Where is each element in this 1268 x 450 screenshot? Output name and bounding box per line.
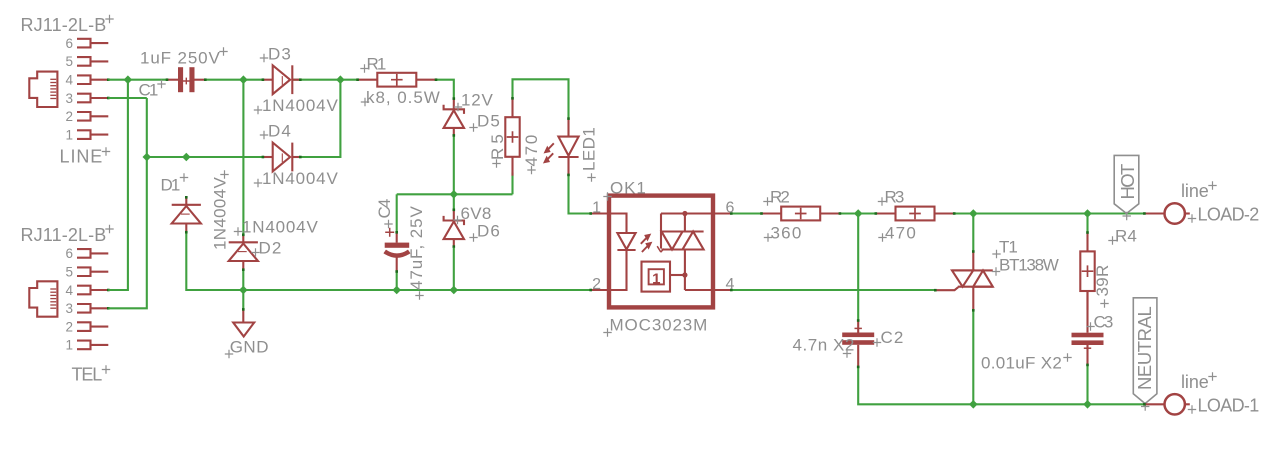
svg-text:D4: D4 [268, 122, 292, 141]
origin cross D2 value [234, 227, 242, 235]
svg-text:1N4004V: 1N4004V [262, 169, 339, 188]
svg-text:1: 1 [592, 200, 601, 217]
triac T1 [934, 250, 993, 311]
svg-text:LOAD-2: LOAD-2 [1198, 205, 1261, 225]
svg-text:R2: R2 [770, 188, 791, 207]
pin 4 of LINE connector [65, 73, 109, 88]
svg-text:LED1: LED1 [580, 126, 599, 171]
label LED1 (vertical) [580, 126, 599, 171]
label D2 [259, 239, 283, 258]
junction at 127.9,79.7 [124, 75, 133, 84]
OK1 internal triac [662, 232, 704, 250]
value 1uF 250V of C1 [140, 49, 221, 68]
wire C3 bottom [1086, 365, 1088, 404]
svg-text:470: 470 [885, 224, 917, 243]
origin cross D6 [469, 233, 477, 241]
svg-text:HOT: HOT [1117, 163, 1138, 200]
svg-text:3: 3 [65, 91, 73, 106]
origin cross R1 [360, 64, 368, 72]
LED LED1 [544, 117, 579, 176]
svg-text:R4: R4 [1115, 227, 1138, 246]
wire net column LINE pin4 / TEL pin4 [108, 80, 128, 290]
optocoupler OK1 box [609, 196, 713, 308]
OK1 pin 1 stub [589, 212, 609, 215]
diode D2 [229, 234, 258, 272]
svg-text:4.7n X2: 4.7n X2 [793, 336, 856, 355]
svg-text:12V: 12V [461, 91, 494, 110]
resistor R2 [760, 207, 841, 221]
origin cross D4 [260, 131, 268, 139]
value 6V8 of D6 [461, 204, 493, 223]
origin cross R5 [492, 159, 500, 167]
label RJ11-2L-B (TEL connector name) [21, 225, 108, 245]
origin cross R2 [763, 197, 771, 205]
origin cross OK1 [603, 192, 611, 200]
wire junction to D6 [453, 194, 455, 210]
origin cross R4 value [1100, 299, 1108, 307]
wire C1 to D3 [205, 79, 263, 81]
label R3 [885, 188, 906, 207]
label R4 [1115, 227, 1138, 246]
origin cross R2 value [764, 233, 772, 241]
svg-text:R3: R3 [885, 188, 906, 207]
wire R4 top [1086, 214, 1088, 234]
wire row A junction down to D2 top [242, 80, 244, 234]
origin cross R4 [1108, 236, 1116, 244]
origin cross HOT [1123, 212, 1131, 220]
origin cross D5 value [454, 103, 462, 111]
wire D2 bottom [242, 270, 244, 290]
svg-text:6: 6 [65, 246, 73, 261]
OK1 internal substrate box with 1 [642, 262, 671, 292]
wire R2 to R3 [840, 212, 877, 214]
wire C2 bottom to bottom output bus [858, 367, 1144, 404]
origin cross LOAD-2 [1188, 214, 1196, 222]
svg-text:1: 1 [65, 127, 73, 142]
svg-text:D2: D2 [259, 239, 283, 258]
label C4 (vertical) [375, 198, 394, 219]
svg-text:RJ11-2L-B: RJ11-2L-B [21, 225, 108, 245]
pin 4 of TEL connector [65, 283, 109, 298]
origin cross TEL [102, 365, 110, 373]
origin cross R3 [878, 197, 886, 205]
origin cross line top [1208, 181, 1216, 189]
value 470 of R3 [885, 224, 917, 243]
junction at 146.8,157.0 [143, 153, 152, 162]
svg-text:2: 2 [592, 276, 601, 293]
origin cross MOC3023M [603, 328, 611, 336]
origin cross GND [225, 350, 233, 358]
svg-text:line: line [1181, 181, 1210, 201]
wire junction down to C2 [857, 214, 859, 321]
svg-text:470: 470 [522, 134, 541, 167]
pin 2 of LINE connector [65, 109, 108, 124]
wire C4 bottom to bus [396, 272, 398, 291]
origin cross D2 [251, 248, 259, 256]
junction at 858.2,213.5 [854, 209, 863, 218]
svg-text:1N4004V: 1N4004V [242, 218, 319, 237]
pin number 2 of OK1 [592, 276, 601, 293]
label D1 [161, 176, 182, 195]
svg-text:OK1: OK1 [610, 179, 647, 198]
svg-text:D6: D6 [477, 222, 501, 241]
connector J1 RJ11-2L-B (LINE) jack symbol [29, 72, 57, 107]
label D6 [477, 222, 501, 241]
label D3 [268, 45, 292, 64]
junction at 1087.5,404.3 [1083, 400, 1092, 409]
capacitor C2 [842, 319, 874, 368]
wire junction row to R5 corner [397, 193, 513, 195]
connector LOAD-2 circle [1143, 203, 1190, 223]
origin cross LINE [102, 147, 110, 155]
pin 1 of LINE connector [65, 127, 108, 142]
svg-text:C4: C4 [375, 198, 394, 219]
svg-text:line: line [1181, 372, 1210, 392]
wire OK1 pin4 to T1 gate [731, 289, 935, 291]
capacitor C3 [1072, 333, 1104, 367]
capacitor C4 (polarized) [385, 228, 410, 273]
label C1 [139, 81, 160, 100]
svg-text:C3: C3 [1094, 313, 1115, 332]
value 360 of R2 [771, 224, 803, 243]
wire row B from pin3 column to D4 [147, 156, 263, 158]
value 39R of R4 (vertical) [1093, 264, 1112, 297]
pin number 4 of OK1 [726, 276, 735, 293]
svg-text:4: 4 [65, 283, 73, 298]
resistor R5 [505, 97, 519, 176]
origin cross C3 [1086, 322, 1094, 330]
value 0.01uF X2 of C3 [981, 354, 1063, 373]
svg-text:BT138W: BT138W [999, 256, 1060, 275]
value 4.7n X2 of C2 [793, 336, 856, 355]
svg-text:C1: C1 [139, 81, 160, 100]
origin cross C4 value [415, 291, 423, 299]
svg-text:39R: 39R [1093, 264, 1112, 297]
pin 5 of TEL connector [65, 265, 108, 280]
wire T1 MT1 down to bus [972, 310, 974, 404]
wire D4 cathode up to row A [300, 80, 340, 157]
svg-text:R1: R1 [367, 55, 388, 74]
OK1 internal light arrows [641, 234, 652, 252]
svg-text:LINE: LINE [60, 147, 104, 167]
label C2 [881, 328, 905, 347]
origin cross D1 value [220, 170, 228, 178]
pin 2 of TEL connector [65, 319, 108, 334]
svg-text:D1: D1 [161, 176, 182, 195]
diode D1 [172, 196, 201, 234]
svg-text:3: 3 [65, 301, 73, 316]
svg-text:LOAD-1: LOAD-1 [1198, 396, 1261, 416]
svg-text:4: 4 [65, 73, 73, 88]
svg-text:47uF, 25V: 47uF, 25V [407, 205, 426, 290]
OK1 pin 2 stub [589, 289, 609, 292]
wire OK1 pin6 to R2 [731, 212, 762, 214]
svg-text:RJ11-2L-B: RJ11-2L-B [21, 15, 108, 35]
junction at 243.4,79.7 [239, 75, 248, 84]
OK1 internal LED [609, 214, 636, 291]
junction at 1087.5,213.5 [1083, 209, 1092, 218]
origin cross RJ11-2L-B TEL [105, 225, 113, 233]
origin cross D5 [469, 123, 477, 131]
label R2 [770, 188, 791, 207]
pin 6 of LINE connector [65, 36, 108, 51]
junction at 453.8,194.3 [450, 190, 459, 199]
label T1 [999, 238, 1019, 257]
svg-text:1uF 250V: 1uF 250V [140, 49, 221, 68]
wire C4 top [396, 194, 398, 232]
svg-text:360: 360 [771, 224, 803, 243]
label D5 [477, 112, 501, 131]
label D4 [268, 122, 292, 141]
wire net column LINE pin3 / TEL pin3 [108, 98, 147, 308]
connector LOAD-1 circle [1143, 394, 1190, 414]
origin cross D6 value [453, 216, 461, 224]
junction at 396.7,290 [392, 286, 401, 295]
junction at 243.3,290 [239, 286, 248, 295]
svg-text:T1: T1 [999, 238, 1019, 257]
origin cross C1 value [219, 47, 227, 55]
origin cross T1 value [992, 267, 1000, 275]
OK1 internal gate arrow [657, 214, 664, 253]
svg-text:2: 2 [65, 109, 73, 124]
capacitor C1 [166, 67, 207, 92]
value MOC3023M of OK1 [610, 316, 709, 335]
svg-text:k8, 0.5W: k8, 0.5W [366, 88, 441, 107]
label RJ11-2L-B (LINE connector name) [21, 15, 108, 35]
svg-text:6: 6 [65, 36, 73, 51]
label line (LOAD-2) [1181, 181, 1210, 201]
value 1N4004V of D3 [262, 96, 339, 115]
origin cross C1 [157, 80, 165, 88]
svg-text:5: 5 [65, 54, 73, 69]
wire D3 to R1 [293, 79, 358, 81]
svg-text:D5: D5 [477, 112, 501, 131]
origin cross line bottom [1208, 372, 1216, 380]
label LINE [60, 147, 104, 167]
svg-text:1N4004V: 1N4004V [262, 96, 339, 115]
OK1 pin 6 stub [713, 212, 733, 215]
label R1 [367, 55, 388, 74]
wire D5 to junction [453, 135, 455, 194]
label GND [230, 337, 270, 356]
svg-text:0.01uF X2: 0.01uF X2 [981, 354, 1063, 373]
resistor R4 [1080, 231, 1094, 310]
origin cross NEUTRAL [1141, 402, 1149, 410]
pin 5 of LINE connector [65, 54, 108, 69]
svg-text:1: 1 [652, 271, 660, 288]
pin 3 of LINE connector [65, 91, 109, 106]
svg-text:1: 1 [65, 338, 73, 353]
origin cross C2 value [843, 349, 851, 357]
value BT138W of T1 [999, 256, 1060, 275]
wire LINE pin4 to C1 [108, 79, 167, 81]
junction at 973.3,213.5 [969, 209, 978, 218]
svg-text:D3: D3 [268, 45, 292, 64]
pin 3 of TEL connector [65, 301, 109, 316]
label C3 [1094, 313, 1115, 332]
wire D1 bottom / bottom bus to OK1 pin2 [186, 232, 590, 290]
origin cross R3 value [878, 233, 886, 241]
origin cross C2 [873, 338, 881, 346]
label R5 (vertical) [488, 133, 507, 160]
value 47uF, 25V of C4 (vertical) [407, 205, 426, 290]
origin cross T1 [992, 250, 1000, 258]
svg-text:6V8: 6V8 [461, 204, 493, 223]
origin cross D4 value [254, 179, 262, 187]
svg-text:1N4004V: 1N4004V [210, 176, 229, 250]
wire R3 to HOT flag and LOAD-2 [953, 212, 1144, 214]
svg-text:TEL: TEL [72, 365, 104, 385]
svg-text:NEUTRAL: NEUTRAL [1134, 305, 1155, 390]
zener diode D6 [444, 209, 464, 248]
wire LED1 to OK1 pin1 [569, 175, 591, 214]
svg-text:4: 4 [726, 276, 735, 293]
origin cross D3 [260, 54, 268, 62]
origin cross D1 [180, 173, 188, 181]
OK1 pin 4 stub [713, 289, 733, 292]
wire LINE pin3 to column [108, 97, 147, 99]
origin cross LOAD-1 [1188, 405, 1196, 413]
svg-text:C2: C2 [881, 328, 905, 347]
label TEL [72, 365, 104, 385]
pin 1 of TEL connector [65, 338, 108, 353]
value 12V of D5 [461, 91, 494, 110]
value 1N4004V of D2 [242, 218, 319, 237]
net flag NEUTRAL [1133, 298, 1157, 404]
label LOAD-1 [1198, 396, 1261, 416]
origin cross LED1 [587, 173, 595, 181]
origin cross D3 value [254, 106, 262, 114]
origin cross C3 value [1063, 353, 1071, 361]
origin cross C4 [384, 220, 392, 228]
label LOAD-2 [1198, 205, 1261, 225]
value 1N4004V of D4 [262, 169, 339, 188]
OK1 internal wire triac to pin4 [670, 250, 713, 291]
value 470 of R5 (vertical) [522, 134, 541, 167]
connector J2 RJ11-2L-B (TEL) jack symbol [29, 281, 57, 316]
wire R1 to D5 [435, 80, 454, 99]
label OK1 [610, 179, 647, 198]
svg-text:MOC3023M: MOC3023M [610, 316, 709, 335]
net flag HOT [1114, 155, 1139, 213]
diode D4 [262, 143, 302, 172]
pin number 6 of OK1 [726, 200, 735, 217]
value k8, 0.5W of R1 [366, 88, 441, 107]
junction at 186.3,157.0 [182, 153, 191, 162]
wire R5 top rail to LED1 [513, 79, 569, 118]
wire D6 to bottom bus [453, 248, 455, 290]
junction at 340.4,79.7 [336, 75, 345, 84]
wire R5 bottom link [511, 173, 513, 195]
label line (LOAD-1) [1181, 372, 1210, 392]
diode D3 [262, 65, 302, 94]
resistor R3 [875, 207, 956, 221]
origin cross RJ11-2L-B [105, 15, 113, 23]
wire R4 to C3 (red pin link) [1086, 291, 1088, 333]
junction at 973.3,404.3 [969, 400, 978, 409]
resistor R1 [356, 73, 437, 87]
svg-text:5: 5 [65, 265, 73, 280]
OK1 internal wire pin6 to triac [661, 211, 713, 232]
origin cross R1 value [361, 98, 369, 106]
ground GND symbol [233, 308, 254, 336]
pin 6 of TEL connector [65, 246, 108, 261]
zener diode D5 [444, 97, 464, 136]
value 1N4004V of D1 (vertical) [210, 176, 229, 250]
origin cross R5 value [527, 166, 535, 174]
wire GND link [242, 290, 244, 309]
wire T1 MT2 up to rail [972, 214, 974, 252]
pin number 1 of OK1 [592, 200, 601, 217]
junction at 453.8,290 [450, 286, 459, 295]
svg-text:GND: GND [230, 337, 270, 356]
svg-text:2: 2 [65, 319, 73, 334]
svg-text:6: 6 [726, 200, 735, 217]
